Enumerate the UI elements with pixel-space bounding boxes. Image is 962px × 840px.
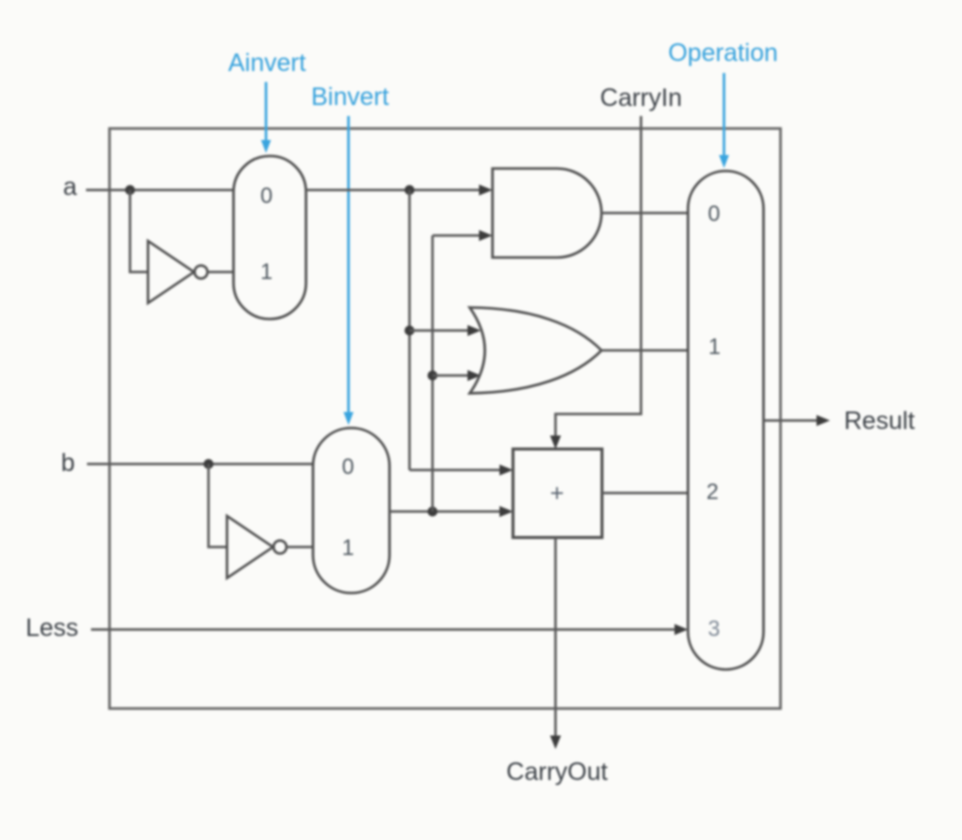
svg-text:+: + xyxy=(550,480,564,507)
mux Binvert (2:1) xyxy=(313,428,390,593)
arrow into adder carry-in xyxy=(550,436,561,450)
wire inverter a to mux xyxy=(208,271,234,274)
wire a-branch vertical xyxy=(408,190,411,470)
node a junction xyxy=(125,185,135,195)
node a-branch OR tap xyxy=(405,326,415,336)
wire a input xyxy=(86,189,234,192)
wire b to inverter xyxy=(209,464,228,547)
outer ALU box xyxy=(110,129,781,709)
svg-text:0: 0 xyxy=(342,454,354,479)
wire AND output to mux3 xyxy=(602,212,689,215)
wire Less to mux3 xyxy=(91,628,683,631)
svg-text:CarryOut: CarryOut xyxy=(506,758,607,786)
wire CarryIn xyxy=(556,116,642,444)
wire b input xyxy=(87,463,313,466)
arrow into AND input 2 xyxy=(479,230,493,241)
mux Ainvert (2:1) xyxy=(234,156,307,319)
svg-text:Result: Result xyxy=(844,407,915,435)
svg-text:Less: Less xyxy=(26,614,79,642)
wire inverter b to mux xyxy=(287,546,314,549)
node b-out branch xyxy=(428,507,438,517)
wire a-branch to adder input 1 xyxy=(410,469,509,472)
svg-text:1: 1 xyxy=(342,535,354,560)
arrow into AND input 1 xyxy=(479,185,493,196)
arrow into adder input 1 xyxy=(500,465,514,476)
wire b-branch to AND input 2 xyxy=(433,234,489,237)
wire Result xyxy=(764,419,826,422)
svg-text:1: 1 xyxy=(260,259,272,284)
svg-text:0: 0 xyxy=(708,201,720,226)
wire a-branch to OR input 1 xyxy=(410,329,477,332)
wire mux2 output to adder xyxy=(390,510,509,513)
mux Operation (4:1) xyxy=(688,171,764,670)
svg-text:0: 0 xyxy=(260,183,272,208)
node mux1-out branch xyxy=(405,185,415,195)
adder xyxy=(513,449,602,538)
svg-text:a: a xyxy=(63,173,77,201)
Binvert control arrow xyxy=(344,116,354,425)
Ainvert control arrow xyxy=(261,82,271,153)
inverter a xyxy=(148,241,208,303)
wire b-branch vertical xyxy=(431,236,434,512)
node b junction xyxy=(204,459,214,469)
arrow into OR input 2 xyxy=(468,370,482,381)
svg-text:Ainvert: Ainvert xyxy=(228,49,306,77)
node b-branch OR tap xyxy=(428,371,438,381)
svg-text:Binvert: Binvert xyxy=(311,83,389,111)
svg-text:3: 3 xyxy=(708,616,720,641)
arrow Result xyxy=(817,415,831,426)
arrow into OR input 1 xyxy=(468,325,482,336)
svg-text:1: 1 xyxy=(708,334,720,359)
svg-text:Operation: Operation xyxy=(668,39,778,67)
wire OR output to mux3 xyxy=(602,349,689,352)
svg-text:2: 2 xyxy=(706,479,718,504)
arrow CarryOut xyxy=(550,736,561,750)
wire mux1 output to AND xyxy=(306,189,488,192)
wire b-branch to OR input 2 xyxy=(433,374,477,377)
OR gate xyxy=(470,308,602,394)
arrow into mux3 input 3 xyxy=(675,624,689,635)
inverter b xyxy=(227,516,287,578)
wire adder output to mux3 xyxy=(602,492,688,495)
arrow into adder input 2 xyxy=(500,506,514,517)
svg-text:b: b xyxy=(61,449,75,477)
wire a to inverter xyxy=(130,190,148,272)
wire CarryOut xyxy=(554,538,557,745)
Operation control arrow xyxy=(719,73,729,168)
AND gate xyxy=(493,169,602,258)
svg-text:CarryIn: CarryIn xyxy=(600,84,682,112)
